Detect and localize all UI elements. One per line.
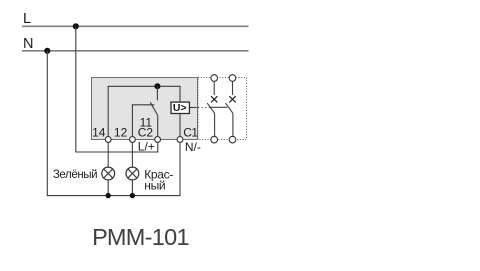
junction dot green lamp [106,193,111,198]
svg-text:12: 12 [114,125,128,139]
device body PMM-101 [92,78,198,140]
wire N rail [22,50,249,52]
contact K1 bottom terminal [211,136,218,143]
wire internal top [108,85,180,87]
svg-text:N/-: N/- [185,140,201,154]
mechanical link between contacts [209,106,227,108]
wire bottom horizontal [47,195,180,197]
svg-text:C1: C1 [183,125,198,139]
voltage detector U1 box [171,102,189,113]
wire terminal 12 to red lamp [131,142,133,167]
lamp HL1 green [102,167,115,180]
wire terminal 14 riser [107,86,109,137]
wire contact 12 horizontal [132,104,155,106]
svg-text:N: N [23,36,33,52]
terminal 12 [130,137,136,143]
wire from N down [46,51,48,196]
terminal C2 [155,137,161,143]
wire green lamp down [107,180,109,196]
svg-text:Зелёный: Зелёный [53,169,97,181]
contact K1 blade [207,103,214,113]
contact K2 top terminal [229,75,236,82]
wire terminal C1 down [179,142,181,196]
junction dot on N [44,48,50,54]
wire to U> top [179,86,181,102]
junction dot internal [154,83,160,89]
contact K2 bottom terminal [229,136,236,143]
junction dot red lamp [130,193,135,198]
mechanical link stub from U> [189,107,196,109]
contact K2 blade [226,103,233,113]
mechanical link dotted [198,107,209,109]
svg-text:L: L [23,11,31,27]
svg-text:14: 14 [92,125,106,139]
contact K2 lower line [232,113,234,136]
contact K1 fixed line [213,81,215,95]
wire from L down [75,26,77,152]
contact K1 lower line [214,113,216,136]
junction dot on L [73,23,79,29]
svg-text:ный: ный [144,179,165,193]
svg-text:C2: C2 [138,125,154,139]
svg-text:L/+: L/+ [138,140,155,154]
lamp HL2 red [126,167,139,180]
wire fixed contact stub 14 [156,86,158,100]
svg-text:U>: U> [173,102,187,114]
contact K1 X mark [211,96,217,102]
contact K2 X mark [229,96,235,102]
wire terminal 12 riser [131,105,133,137]
svg-text:РММ-101: РММ-101 [92,224,189,250]
wire terminal C2 riser [157,115,159,137]
wire terminal 14 to green lamp [107,142,109,167]
terminal 14 [105,137,111,143]
wire L to C2 horizontal [75,151,158,153]
terminal C1 [177,137,183,143]
contact K1 top terminal [211,75,218,82]
contact K2 fixed line [232,81,234,95]
wire L rail [22,25,249,27]
wire red lamp down [131,180,133,196]
wire up to terminal C2 [157,142,159,152]
external contactor dashed box [198,78,247,140]
wire U> to terminal C1 [179,114,181,138]
relay blade 11 [150,102,157,115]
